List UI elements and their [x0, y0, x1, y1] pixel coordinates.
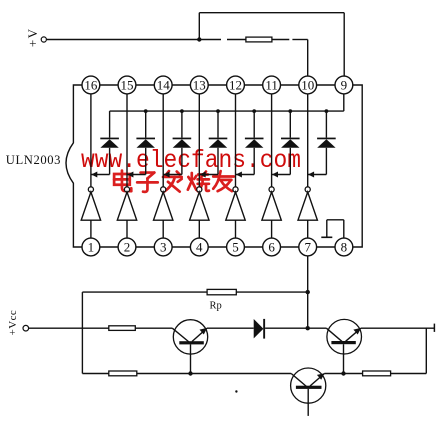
svg-text:12: 12 — [229, 77, 242, 92]
svg-text:13: 13 — [193, 77, 206, 92]
svg-text:3: 3 — [160, 239, 167, 254]
svg-text:ULN2003: ULN2003 — [6, 153, 61, 167]
svg-text:2: 2 — [124, 239, 131, 254]
svg-text:15: 15 — [121, 77, 134, 92]
svg-text:9: 9 — [341, 77, 348, 92]
svg-text:1: 1 — [88, 239, 95, 254]
svg-text:11: 11 — [265, 77, 278, 92]
svg-text:10: 10 — [301, 77, 314, 92]
svg-text:4: 4 — [196, 239, 203, 254]
svg-text:8: 8 — [341, 239, 348, 254]
svg-text:5: 5 — [232, 239, 239, 254]
svg-text:Rp: Rp — [210, 301, 222, 312]
svg-text:6: 6 — [268, 239, 275, 254]
svg-text:14: 14 — [157, 77, 171, 92]
svg-text:7: 7 — [304, 239, 311, 254]
svg-text:16: 16 — [84, 77, 98, 92]
svg-text:www.elecfans.com: www.elecfans.com — [81, 146, 301, 175]
svg-text:+Vcc: +Vcc — [7, 310, 19, 336]
svg-text:+V: +V — [25, 27, 40, 47]
